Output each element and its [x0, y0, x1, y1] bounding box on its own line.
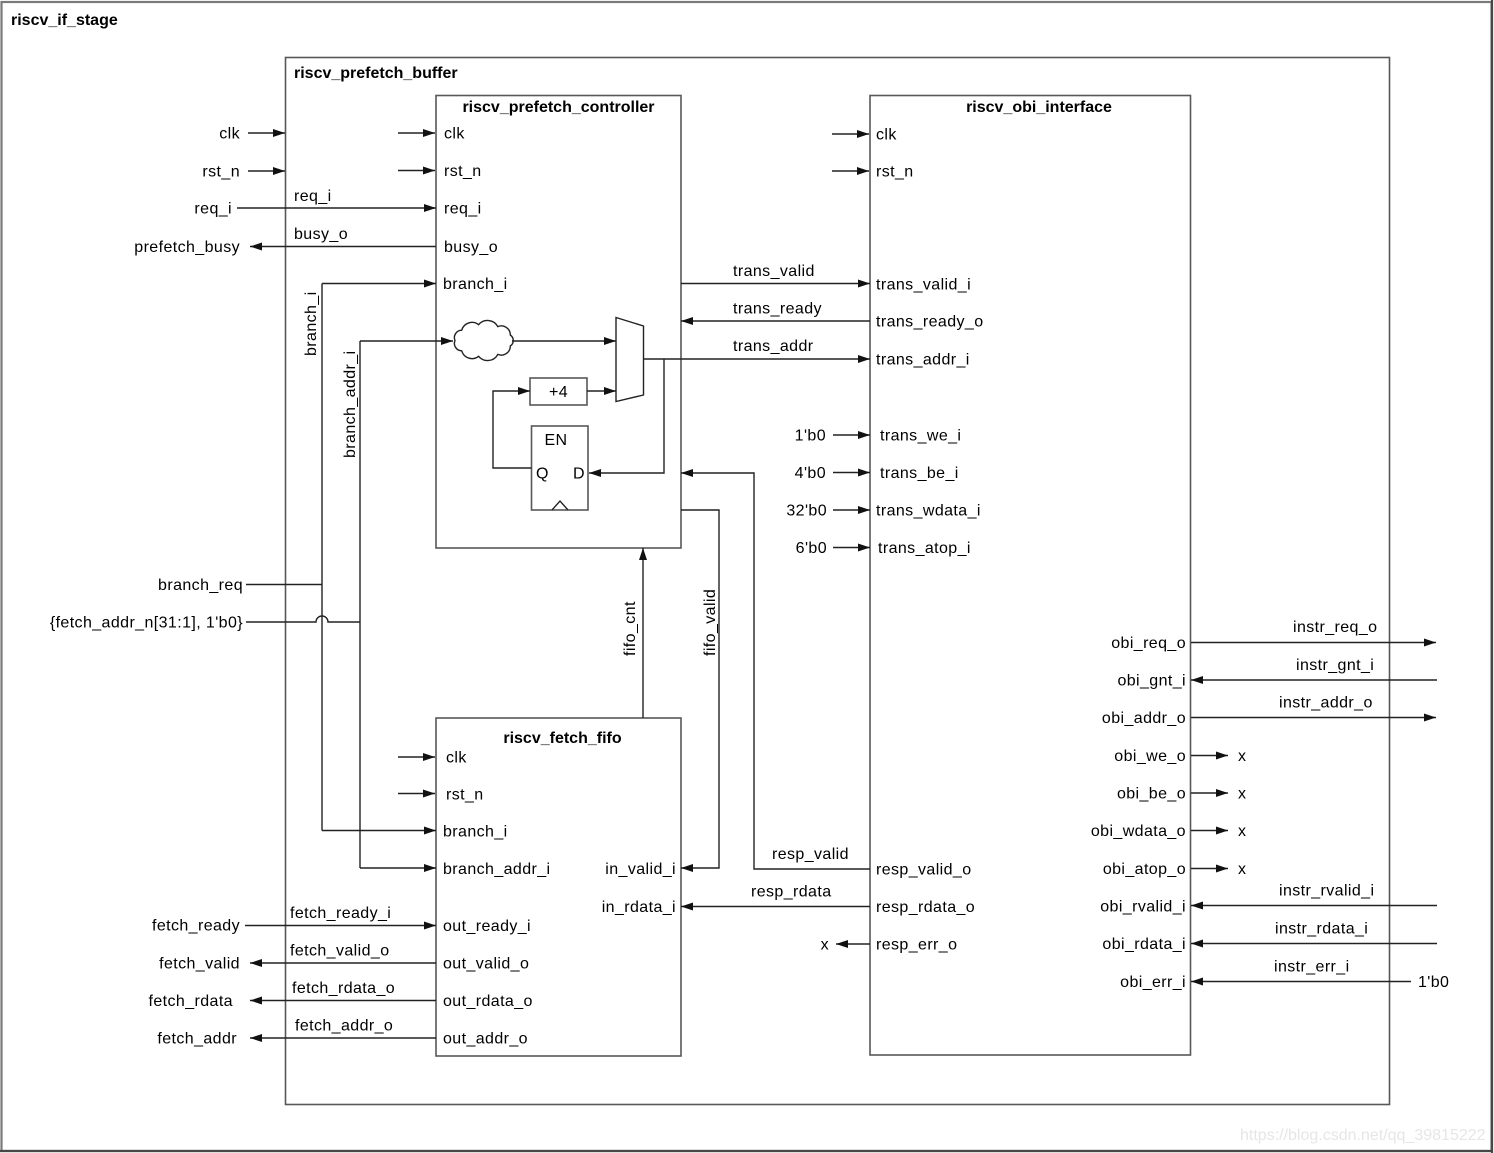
- svg-text:trans_addr: trans_addr: [733, 338, 814, 355]
- svg-text:trans_wdata_i: trans_wdata_i: [876, 503, 981, 520]
- wire +4 to mux: [587, 390, 616, 392]
- svg-text:x: x: [1238, 748, 1246, 765]
- wire req_i to controller: [237, 207, 436, 209]
- svg-text:obi_rvalid_i: obi_rvalid_i: [1100, 899, 1186, 916]
- wire obi_we_o to x: [1191, 755, 1228, 757]
- svg-text:x: x: [1238, 861, 1246, 878]
- svg-text:Q: Q: [536, 466, 549, 483]
- svg-text:instr_addr_o: instr_addr_o: [1279, 695, 1373, 712]
- svg-text:branch_i: branch_i: [303, 291, 320, 356]
- wire resp_rdata obi to fifo in_rdata_i: [681, 906, 870, 908]
- wire clk stub fifo: [398, 756, 435, 758]
- svg-text:obi_req_o: obi_req_o: [1111, 635, 1186, 652]
- cloud (next PC logic): [454, 320, 513, 360]
- svg-text:32'b0: 32'b0: [786, 503, 827, 520]
- svg-text:riscv_prefetch_buffer: riscv_prefetch_buffer: [294, 65, 458, 82]
- wire fetch_valid from fifo: [250, 962, 436, 964]
- svg-text:fetch_valid_o: fetch_valid_o: [290, 943, 390, 960]
- outer box darker right edge: [1491, 0, 1493, 1153]
- svg-text:riscv_if_stage: riscv_if_stage: [11, 12, 118, 29]
- wire instr_rdata_i input: [1191, 943, 1437, 945]
- wire clk stub obi: [832, 133, 869, 135]
- svg-text:out_addr_o: out_addr_o: [443, 1031, 528, 1048]
- svg-text:https://blog.csdn.net/qq_39815: https://blog.csdn.net/qq_39815222: [1240, 1127, 1486, 1144]
- svg-text:fetch_rdata: fetch_rdata: [149, 993, 233, 1010]
- svg-text:x: x: [1238, 823, 1246, 840]
- svg-text:trans_addr_i: trans_addr_i: [876, 352, 970, 369]
- svg-text:obi_we_o: obi_we_o: [1114, 748, 1186, 765]
- svg-text:rst_n: rst_n: [876, 164, 914, 181]
- svg-text:instr_err_i: instr_err_i: [1274, 959, 1350, 976]
- svg-text:trans_atop_i: trans_atop_i: [878, 540, 971, 557]
- wire resp_valid obi to controller: [681, 473, 870, 869]
- block riscv_obi_interface U3: [870, 96, 1191, 1056]
- wire branch_i to controller: [322, 283, 436, 285]
- wire 1'b0 to trans_we_i: [833, 434, 870, 436]
- wire instr_gnt_i input: [1191, 679, 1437, 681]
- wire branch_req: [246, 584, 322, 586]
- svg-text:x: x: [1238, 786, 1246, 803]
- wire obi_wdata_o to x: [1191, 830, 1228, 832]
- wire rst_n stub controller: [398, 170, 435, 172]
- svg-text:fetch_addr: fetch_addr: [157, 1031, 237, 1048]
- svg-text:obi_err_i: obi_err_i: [1120, 974, 1186, 991]
- wire obi_be_o to x: [1191, 792, 1228, 794]
- wire clk stub controller: [398, 132, 435, 134]
- wire branch_i to fetch fifo: [322, 830, 436, 832]
- svg-text:clk: clk: [876, 127, 897, 144]
- svg-text:fifo_cnt: fifo_cnt: [622, 601, 639, 656]
- svg-text:4'b0: 4'b0: [795, 465, 826, 482]
- wire instr_req_o output: [1191, 642, 1436, 644]
- svg-text:req_i: req_i: [294, 188, 332, 205]
- wire obi_atop_o to x: [1191, 868, 1228, 870]
- wire mux output trans_addr to obi: [644, 358, 871, 360]
- svg-text:riscv_obi_interface: riscv_obi_interface: [966, 99, 1112, 116]
- svg-text:fetch_valid: fetch_valid: [159, 956, 240, 973]
- svg-text:in_valid_i: in_valid_i: [605, 861, 676, 878]
- svg-text:in_rdata_i: in_rdata_i: [602, 899, 676, 916]
- svg-text:clk: clk: [446, 750, 467, 767]
- svg-text:out_ready_i: out_ready_i: [443, 918, 531, 935]
- svg-text:6'b0: 6'b0: [796, 540, 827, 557]
- svg-text:{fetch_addr_n[31:1], 1'b0}: {fetch_addr_n[31:1], 1'b0}: [50, 615, 243, 632]
- svg-text:resp_rdata_o: resp_rdata_o: [876, 899, 975, 916]
- wire branch_addr_i to fetch fifo: [360, 867, 436, 869]
- svg-text:fetch_ready: fetch_ready: [152, 918, 240, 935]
- wire instr_err_i input from 1'b0: [1191, 981, 1411, 983]
- svg-text:busy_o: busy_o: [444, 239, 498, 256]
- wire fifo_valid controller to fifo in_valid_i: [681, 510, 719, 868]
- svg-text:fifo_valid: fifo_valid: [702, 589, 719, 656]
- mux (address select): [616, 318, 644, 402]
- wire fetch_rdata from fifo: [250, 1000, 436, 1002]
- svg-text:trans_valid_i: trans_valid_i: [876, 277, 971, 294]
- block riscv_prefetch_buffer: [286, 58, 1390, 1105]
- block riscv_fetch_fifo U2: [436, 718, 681, 1056]
- adder +4 box: [530, 378, 587, 405]
- wire clk into buffer: [248, 132, 285, 134]
- register (fetch address register): [532, 426, 589, 510]
- svg-text:riscv_prefetch_controller: riscv_prefetch_controller: [462, 99, 654, 116]
- svg-text:obi_gnt_i: obi_gnt_i: [1117, 673, 1186, 690]
- svg-text:trans_ready: trans_ready: [733, 301, 822, 318]
- svg-text:EN: EN: [544, 432, 567, 449]
- svg-text:busy_o: busy_o: [294, 226, 348, 243]
- wire 32'b0 to trans_wdata_i: [833, 509, 870, 511]
- outer box darker bottom edge: [0, 1150, 1493, 1152]
- svg-text:branch_req: branch_req: [158, 577, 243, 594]
- wire D input branch from trans_addr: [589, 359, 664, 473]
- svg-text:trans_we_i: trans_we_i: [880, 428, 961, 445]
- svg-text:branch_i: branch_i: [443, 824, 508, 841]
- wire branch_addr_i to cloud: [360, 340, 453, 342]
- wire fetch_addr_n with hop over branch_i: [246, 616, 360, 622]
- svg-text:rst_n: rst_n: [446, 787, 484, 804]
- block riscv_prefetch_controller U1: [436, 96, 681, 549]
- wire cloud to mux: [512, 340, 616, 342]
- svg-text:obi_wdata_o: obi_wdata_o: [1091, 823, 1186, 840]
- wire 6'b0 to trans_atop_i: [833, 547, 870, 549]
- svg-text:resp_rdata: resp_rdata: [751, 884, 832, 901]
- wire rst_n stub fifo: [398, 793, 435, 795]
- svg-text:out_rdata_o: out_rdata_o: [443, 993, 533, 1010]
- wire fetch_ready to fifo: [245, 925, 436, 927]
- svg-text:req_i: req_i: [444, 201, 482, 218]
- wire rst_n stub obi: [832, 170, 869, 172]
- register clock triangle: [552, 501, 568, 510]
- wire busy_o from controller: [250, 246, 436, 248]
- svg-text:rst_n: rst_n: [202, 164, 240, 181]
- svg-text:obi_addr_o: obi_addr_o: [1102, 710, 1186, 727]
- svg-text:branch_i: branch_i: [443, 276, 508, 293]
- svg-text:instr_rvalid_i: instr_rvalid_i: [1279, 883, 1374, 900]
- svg-text:obi_atop_o: obi_atop_o: [1103, 861, 1186, 878]
- wire instr_rvalid_i input: [1191, 905, 1437, 907]
- svg-text:resp_err_o: resp_err_o: [876, 937, 957, 954]
- wire 4'b0 to trans_be_i: [833, 472, 870, 474]
- wire fifo_cnt fifo to controller: [642, 548, 644, 718]
- svg-text:clk: clk: [219, 126, 240, 143]
- svg-text:branch_addr_i: branch_addr_i: [342, 351, 359, 459]
- svg-text:branch_addr_i: branch_addr_i: [443, 861, 551, 878]
- svg-text:1'b0: 1'b0: [795, 428, 826, 445]
- svg-text:fetch_rdata_o: fetch_rdata_o: [292, 980, 395, 997]
- svg-text:obi_be_o: obi_be_o: [1117, 786, 1186, 803]
- svg-text:obi_rdata_i: obi_rdata_i: [1102, 936, 1186, 953]
- svg-text:instr_req_o: instr_req_o: [1293, 619, 1377, 636]
- net branch_addr_i vertical: [359, 341, 361, 868]
- svg-text:trans_be_i: trans_be_i: [880, 465, 959, 482]
- svg-text:instr_rdata_i: instr_rdata_i: [1275, 921, 1368, 938]
- wire instr_addr_o output: [1191, 717, 1436, 719]
- svg-text:+4: +4: [549, 384, 568, 401]
- svg-text:prefetch_busy: prefetch_busy: [134, 239, 240, 256]
- wire trans_valid controller to obi: [681, 283, 870, 285]
- svg-text:x: x: [821, 937, 829, 954]
- svg-text:trans_ready_o: trans_ready_o: [876, 314, 984, 331]
- wire Q feedback to +4: [493, 391, 532, 468]
- svg-text:resp_valid_o: resp_valid_o: [876, 862, 972, 879]
- svg-text:rst_n: rst_n: [444, 163, 482, 180]
- svg-text:trans_valid: trans_valid: [733, 263, 815, 280]
- svg-text:1'b0: 1'b0: [1418, 974, 1449, 991]
- wire trans_ready obi to controller: [681, 320, 870, 322]
- svg-text:riscv_fetch_fifo: riscv_fetch_fifo: [503, 730, 621, 747]
- svg-text:resp_valid: resp_valid: [772, 846, 849, 863]
- svg-text:D: D: [573, 466, 585, 483]
- svg-text:out_valid_o: out_valid_o: [443, 956, 529, 973]
- wire resp_err_o to x: [836, 943, 870, 945]
- wire fetch_addr from fifo: [250, 1037, 436, 1039]
- svg-text:req_i: req_i: [194, 201, 232, 218]
- svg-text:fetch_ready_i: fetch_ready_i: [290, 905, 391, 922]
- svg-text:fetch_addr_o: fetch_addr_o: [295, 1018, 393, 1035]
- wire rst_n into buffer: [248, 170, 285, 172]
- svg-text:instr_gnt_i: instr_gnt_i: [1296, 657, 1374, 674]
- svg-text:clk: clk: [444, 126, 465, 143]
- net branch_i vertical: [321, 284, 323, 831]
